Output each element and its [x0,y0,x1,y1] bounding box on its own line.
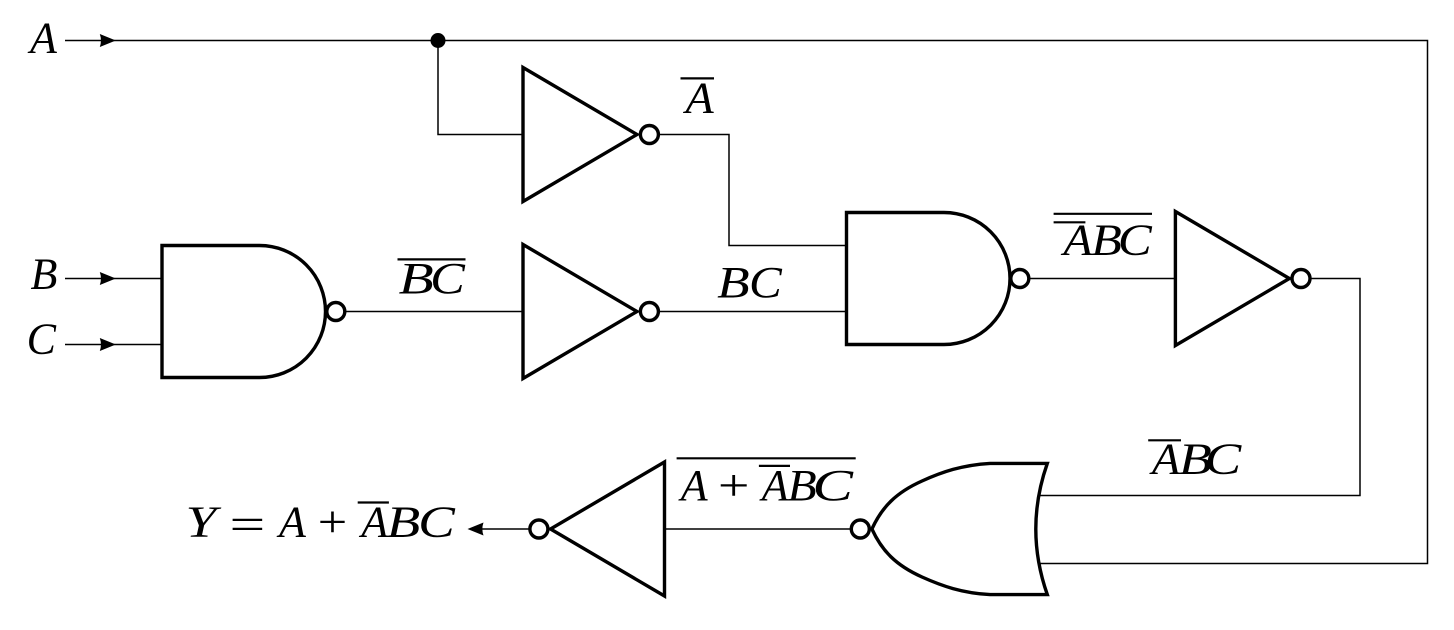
label AbarBC (below inverter U4) [1148,435,1242,484]
label BC [717,258,782,307]
wire NOR U5 output to inverter U6 [665,528,853,530]
wire Y output [470,528,530,530]
label Abar [681,74,715,123]
NOR gate U5 (mirrored, pointing left) [851,463,1047,594]
inverter U1 (NOT gate, top) [523,68,658,202]
svg-text:C: C [27,315,57,364]
inverter U4 (NOT gate, right) [1175,212,1310,346]
wire AbarBC from U4 to NOR U5 upper input [1039,279,1360,496]
inverter U2 (NOT gate, middle) [523,245,658,379]
wire C input [65,344,163,346]
wire BCbar from NAND G1 to inverter U2 [344,311,523,313]
wire B input [65,278,163,280]
svg-text:B: B [399,254,434,303]
svg-text:A: A [358,498,389,547]
svg-text:A: A [682,74,715,123]
wire A branch to inverter U1 [438,41,523,135]
arrow on input A [100,34,116,47]
svg-text:C: C [1118,216,1153,265]
junction node on A [431,33,446,48]
svg-text:C: C [749,258,783,307]
svg-text:A: A [678,461,709,510]
NAND gate U3 (inputs Abar, BC) [847,213,1029,345]
label overline A+AbarBC [677,458,856,510]
label double-overline AbarBC [1054,214,1153,265]
svg-text:B: B [717,258,750,307]
svg-text:C: C [812,461,853,510]
arrow on output Y [468,523,484,536]
wire NAND U3 output to inverter U4 [1029,278,1176,280]
svg-text:+: + [714,461,752,510]
label Y = A + AbarBC [186,498,456,550]
inverter U6 (NOT gate, output, pointing left) [530,462,665,596]
NAND gate G1 (inputs B,C) [162,246,345,378]
svg-text:C: C [418,498,456,547]
arrow on input B [100,272,116,285]
svg-text:=: = [225,500,268,549]
svg-text:+: + [314,498,349,547]
wire BC from U2 to NAND U3 [657,311,848,313]
svg-text:A: A [27,14,58,63]
svg-text:A: A [759,461,790,510]
svg-text:C: C [1205,435,1242,484]
wire A main top [65,41,1428,564]
svg-text:B: B [387,498,421,547]
svg-text:A: A [276,498,307,547]
svg-text:A: A [1149,435,1182,484]
svg-text:C: C [430,254,465,303]
svg-text:B: B [31,250,58,299]
label BCbar [398,254,466,303]
arrow on input C [100,338,116,351]
wire U1 output Abar to NAND U3 [657,135,848,246]
